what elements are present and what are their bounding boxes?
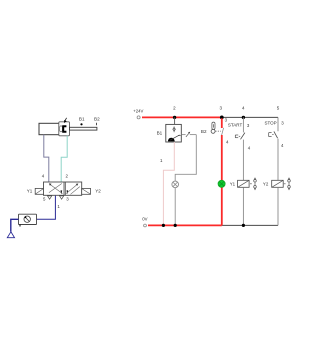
label B1 (rod position mark) — [79, 116, 85, 125]
wire STOP to Y2 coil — [277, 139, 279, 181]
wire B1 contact down to lamp — [175, 135, 196, 182]
label B2 (rod end mark) — [94, 116, 100, 125]
motion arrow on piston — [64, 118, 67, 123]
port 1 label — [57, 204, 60, 209]
wire rail to B1 — [174, 117, 176, 124]
node col4 top — [242, 116, 245, 119]
valve exhaust 3 — [60, 196, 70, 202]
node col2 top — [173, 116, 176, 119]
wire Y2 to 0V — [277, 187, 279, 225]
piston rod — [70, 127, 97, 130]
relay coil Y1 — [230, 180, 249, 187]
Y1 solenoid link symbol — [250, 177, 256, 190]
proximity contact B2 on col3 — [222, 128, 224, 135]
wire 4 label col3 — [226, 140, 229, 145]
svg-text:B1: B1 — [79, 116, 85, 121]
pushbutton START (NO) — [235, 133, 245, 140]
svg-text:Y2: Y2 — [263, 182, 269, 187]
valve V1 body 5/2 — [44, 182, 82, 195]
svg-text:Y1: Y1 — [27, 188, 33, 193]
indicator lamp H1 (off) — [172, 181, 179, 188]
STOP label — [265, 121, 277, 126]
supply tube: FRL to valve port 1 — [37, 196, 56, 220]
relay coil Y2 — [263, 180, 283, 187]
valve exhaust 5 — [43, 196, 52, 202]
svg-text:B2: B2 — [94, 116, 100, 121]
wire START to Y1 coil — [242, 140, 244, 181]
B1 output wire and contact — [182, 132, 196, 137]
+24V terminal — [133, 108, 143, 119]
svg-text:0V: 0V — [142, 216, 147, 221]
node col3 top — [220, 116, 224, 120]
Y2 solenoid link symbol — [284, 177, 291, 190]
air service unit (FRL) — [19, 214, 37, 226]
svg-text:START: START — [228, 122, 243, 127]
indicator lamp green (on) — [218, 180, 225, 187]
0V terminal — [142, 216, 147, 227]
col3 energized wire lower — [221, 135, 223, 225]
wire 4 label col4 — [248, 145, 251, 150]
supply tube: source to FRL — [11, 219, 19, 231]
wire Y1 to 0V — [242, 187, 244, 225]
solenoid Y2 (valve right) — [82, 188, 102, 194]
svg-text:STOP: STOP — [265, 121, 277, 126]
cylinder body A1 — [39, 123, 69, 134]
compressed air source — [7, 232, 14, 238]
wire rail to START — [242, 117, 244, 132]
wire 3 label col4 — [247, 123, 250, 128]
node Y1-0V — [242, 224, 245, 227]
valve port labels 4 2 — [42, 174, 69, 179]
col3 energized wire upper — [221, 118, 223, 128]
wire 3 label col5 — [281, 121, 284, 126]
wire 1: B1 to 0V (pink) — [160, 142, 174, 225]
bottom rail energized segment — [148, 224, 222, 226]
svg-text:B2: B2 — [201, 129, 207, 134]
wire rail to STOP — [277, 117, 279, 131]
tube: cylinder right port to valve port 2 — [61, 136, 67, 182]
wire 4 label col5 — [281, 143, 284, 148]
svg-text:B1: B1 — [157, 130, 163, 135]
valve right box flow paths — [66, 184, 80, 195]
proximity switch B1 box — [157, 124, 182, 142]
node pink-0V — [162, 224, 165, 227]
wire lamp to 0V rail — [174, 188, 176, 226]
proximity sensor B2 symbol — [201, 122, 221, 134]
top rail right segment — [222, 116, 278, 118]
valve left box flow paths — [49, 183, 68, 194]
wire 3 label col3 — [225, 118, 228, 123]
svg-text:Y1: Y1 — [230, 182, 236, 187]
solenoid Y1 (valve left) — [27, 188, 44, 194]
top rail energized segment — [142, 116, 222, 118]
piston with magnet — [59, 122, 70, 136]
START label — [228, 122, 243, 127]
pushbutton STOP (NC) — [269, 131, 278, 138]
column number labels — [173, 106, 280, 111]
svg-text:Y2: Y2 — [95, 188, 101, 193]
node lamp-0V — [174, 224, 177, 227]
tube: cylinder left port to valve port 4 — [44, 135, 49, 182]
bottom rail right segment — [222, 224, 278, 226]
svg-text:+24V: +24V — [133, 108, 143, 113]
